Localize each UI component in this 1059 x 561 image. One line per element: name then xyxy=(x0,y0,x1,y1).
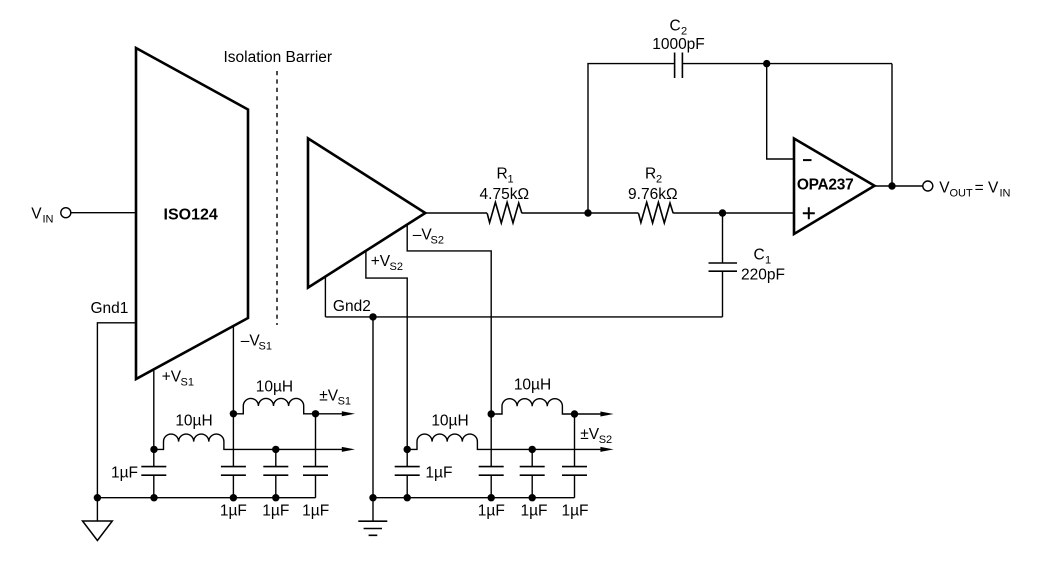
svg-text:V: V xyxy=(31,206,42,223)
svg-text:R: R xyxy=(645,166,656,183)
svg-text:10µH: 10µH xyxy=(256,379,293,396)
svg-text:= V: = V xyxy=(975,180,999,197)
svg-text:Gnd2: Gnd2 xyxy=(333,298,371,315)
svg-text:S2: S2 xyxy=(390,261,403,273)
svg-text:OPA237: OPA237 xyxy=(797,177,854,194)
svg-text:2: 2 xyxy=(656,174,662,186)
svg-text:Isolation Barrier: Isolation Barrier xyxy=(224,49,333,66)
svg-text:±V: ±V xyxy=(319,387,339,404)
svg-text:10µH: 10µH xyxy=(175,412,212,429)
svg-text:10µH: 10µH xyxy=(514,377,551,394)
svg-text:ISO124: ISO124 xyxy=(164,207,218,224)
svg-text:1µF: 1µF xyxy=(262,503,289,520)
svg-text:1000pF: 1000pF xyxy=(652,36,705,53)
svg-text:S1: S1 xyxy=(338,395,351,407)
svg-text:IN: IN xyxy=(1000,188,1011,200)
svg-text:–V: –V xyxy=(413,227,433,244)
svg-text:S1: S1 xyxy=(181,376,194,388)
svg-text:1µF: 1µF xyxy=(478,503,505,520)
svg-text:1: 1 xyxy=(765,255,771,267)
svg-text:S2: S2 xyxy=(431,235,444,247)
svg-text:4.75kΩ: 4.75kΩ xyxy=(480,186,530,203)
svg-text:C: C xyxy=(754,247,765,264)
svg-text:IN: IN xyxy=(43,214,54,226)
svg-text:1µF: 1µF xyxy=(111,465,138,482)
svg-text:C: C xyxy=(670,17,681,34)
svg-text:1: 1 xyxy=(508,174,514,186)
svg-text:1µF: 1µF xyxy=(561,503,588,520)
svg-text:R: R xyxy=(497,166,508,183)
svg-text:220pF: 220pF xyxy=(741,266,785,283)
svg-text:Gnd1: Gnd1 xyxy=(91,300,129,317)
svg-text:S2: S2 xyxy=(599,434,612,446)
svg-text:–V: –V xyxy=(241,333,261,350)
svg-text:1µF: 1µF xyxy=(520,503,547,520)
svg-text:1µF: 1µF xyxy=(302,503,329,520)
svg-text:S1: S1 xyxy=(259,341,272,353)
svg-text:1µF: 1µF xyxy=(220,503,247,520)
svg-text:+V: +V xyxy=(162,368,182,385)
svg-text:10µH: 10µH xyxy=(431,412,468,429)
svg-text:OUT: OUT xyxy=(950,188,974,200)
svg-text:1µF: 1µF xyxy=(425,465,452,482)
svg-text:+V: +V xyxy=(371,253,391,270)
svg-text:±V: ±V xyxy=(580,426,600,443)
svg-text:9.76kΩ: 9.76kΩ xyxy=(628,186,678,203)
